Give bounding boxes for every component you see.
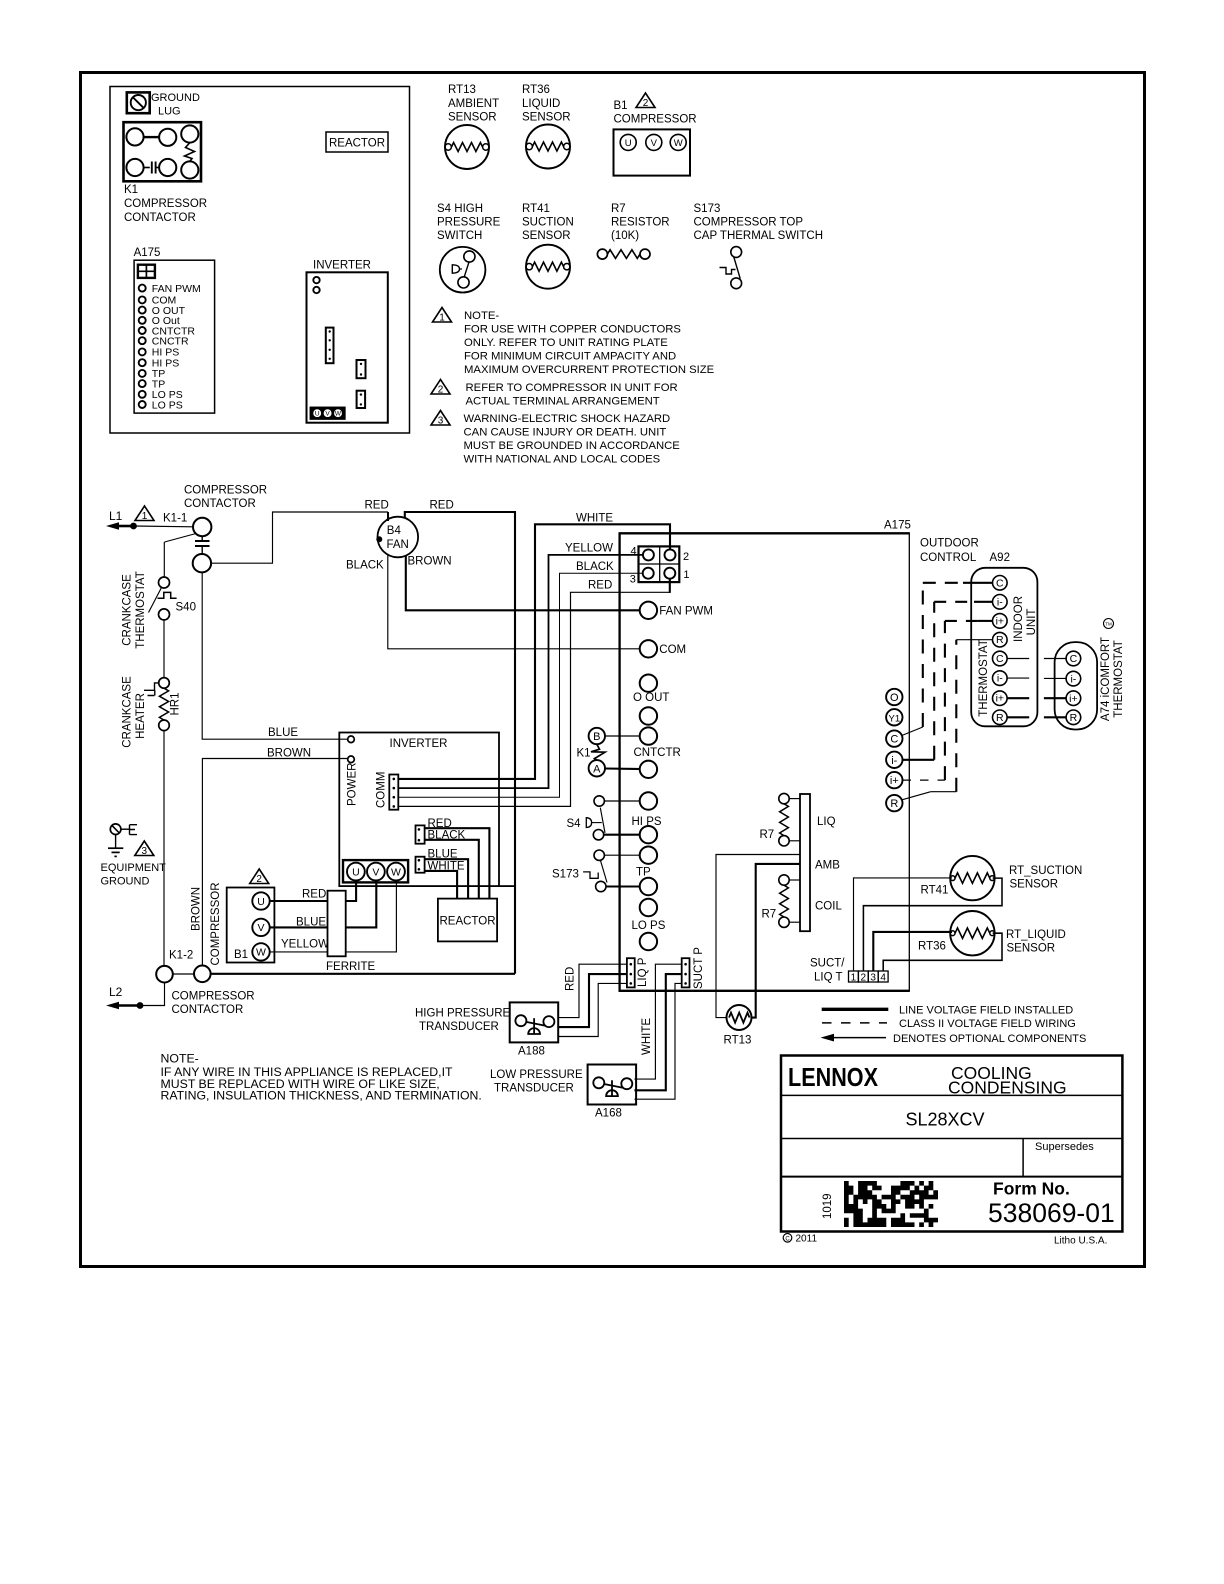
svg-text:V: V xyxy=(257,922,264,934)
svg-text:RT41: RT41 xyxy=(921,885,949,897)
svg-text:CLASS II VOLTAGE FIELD WIRING: CLASS II VOLTAGE FIELD WIRING xyxy=(899,1018,1076,1030)
svg-text:A175: A175 xyxy=(884,520,911,532)
svg-text:C: C xyxy=(785,1237,790,1243)
svg-text:BLACK: BLACK xyxy=(346,560,384,572)
thermal switch S173 legend xyxy=(694,203,824,289)
svg-text:S40: S40 xyxy=(176,602,196,614)
svg-text:REACTOR: REACTOR xyxy=(329,138,385,150)
svg-text:SENSOR: SENSOR xyxy=(522,112,571,124)
ferrite xyxy=(326,891,376,973)
svg-text:RT36: RT36 xyxy=(522,84,550,96)
wire blue B1-V to inverter V xyxy=(270,881,376,928)
svg-text:CAP THERMAL SWITCH: CAP THERMAL SWITCH xyxy=(694,230,824,242)
contactor K1-2 xyxy=(156,950,210,983)
svg-text:SENSOR: SENSOR xyxy=(1007,943,1056,955)
svg-text:S4: S4 xyxy=(567,818,582,830)
label equipment ground xyxy=(101,862,167,888)
wire hp transducer to liq p 3 xyxy=(558,983,627,1036)
svg-text:WHITE: WHITE xyxy=(641,1018,653,1055)
wire S4 to HI PS top xyxy=(604,800,639,802)
svg-text:LIQ P: LIQ P xyxy=(637,957,649,987)
svg-text:i+: i+ xyxy=(1069,693,1077,705)
svg-text:BROWN: BROWN xyxy=(191,887,203,931)
node L2 xyxy=(106,985,143,1009)
svg-text:Litho U.S.A.: Litho U.S.A. xyxy=(1054,1236,1107,1247)
connector LIQ P xyxy=(627,957,649,987)
outdoor control A175 box xyxy=(619,532,910,992)
wire inverter corner to red vertical xyxy=(499,885,515,887)
svg-text:CONTACTOR: CONTACTOR xyxy=(172,1004,244,1016)
svg-text:RED: RED xyxy=(302,889,326,901)
label A74 icomfort thermostat xyxy=(1100,619,1125,722)
wire R to indoor unit xyxy=(902,640,993,800)
svg-text:R: R xyxy=(996,634,1004,646)
wire yellow comm to pin4 xyxy=(398,555,642,788)
svg-text:WARNING-ELECTRIC SHOCK HAZARD: WARNING-ELECTRIC SHOCK HAZARD xyxy=(464,413,671,425)
terminal strip LIQ AMB COIL xyxy=(800,794,842,931)
svg-text:DENOTES OPTIONAL COMPONENTS: DENOTES OPTIONAL COMPONENTS xyxy=(893,1033,1086,1045)
label crankcase thermostat xyxy=(122,571,148,649)
svg-text:A168: A168 xyxy=(595,1108,622,1120)
label SUCT LIQ T xyxy=(810,958,845,984)
contactor switch K1-1 xyxy=(165,518,212,573)
terminal HI PS xyxy=(632,792,662,843)
svg-text:NOTE-: NOTE- xyxy=(161,1052,199,1066)
low pressure transducer A168 xyxy=(490,1065,636,1120)
compressor B1 legend xyxy=(614,93,697,176)
legend box xyxy=(110,87,410,434)
wire C to indoor unit dashed xyxy=(902,583,993,736)
title block xyxy=(781,1056,1122,1232)
svg-text:RT13: RT13 xyxy=(448,84,476,96)
wire S173 to TP top xyxy=(604,854,639,856)
svg-text:2: 2 xyxy=(683,551,689,563)
svg-text:LENNOX: LENNOX xyxy=(788,1062,879,1092)
svg-text:OUTDOOR: OUTDOOR xyxy=(920,538,979,550)
A74 terminals C i- i+ R xyxy=(1066,651,1081,724)
power input terminals xyxy=(347,736,359,806)
svg-text:RT_SUCTION: RT_SUCTION xyxy=(1009,865,1082,877)
svg-text:V: V xyxy=(372,866,379,878)
svg-text:COMPRESSOR: COMPRESSOR xyxy=(614,114,697,126)
svg-text:SENSOR: SENSOR xyxy=(522,230,571,242)
svg-text:i+: i+ xyxy=(996,693,1004,705)
svg-text:FOR MINIMUM CIRCUIT AMPACITY A: FOR MINIMUM CIRCUIT AMPACITY AND xyxy=(464,351,676,363)
svg-text:LO PS: LO PS xyxy=(152,399,183,411)
svg-text:POWER: POWER xyxy=(347,763,359,806)
warning triangle 2 at B1 xyxy=(250,869,269,885)
node L1 xyxy=(106,509,137,530)
note 3 text xyxy=(464,413,681,466)
wire pin1 to RT41 xyxy=(854,878,953,971)
svg-text:L2: L2 xyxy=(109,985,123,999)
indoor unit A92 box xyxy=(971,568,1037,727)
svg-text:FAN PWM: FAN PWM xyxy=(152,283,201,295)
thermistor RT41 suction xyxy=(921,856,995,900)
svg-text:i-: i- xyxy=(997,673,1003,685)
svg-text:YELLOW: YELLOW xyxy=(281,939,329,951)
wire black comm to pin3 xyxy=(398,573,642,797)
svg-text:CRANKCASE: CRANKCASE xyxy=(122,676,134,748)
resistor R7 liq xyxy=(760,793,790,846)
high pressure transducer A188 xyxy=(415,1002,558,1057)
svg-text:A175: A175 xyxy=(134,247,161,259)
note 2 text xyxy=(466,382,678,408)
page border frame xyxy=(81,73,1145,1267)
svg-text:RT_LIQUID: RT_LIQUID xyxy=(1006,929,1066,941)
svg-text:LO PS: LO PS xyxy=(632,920,666,932)
svg-text:SENSOR: SENSOR xyxy=(1010,879,1059,891)
legend class II xyxy=(822,1018,1076,1030)
svg-text:WHITE: WHITE xyxy=(576,513,613,525)
svg-text:B: B xyxy=(593,731,600,743)
wire pin2 to RT41 return xyxy=(863,878,1002,971)
warning triangle 1 at L1 xyxy=(135,506,154,522)
svg-text:(10K): (10K) xyxy=(611,230,639,242)
svg-text:LOW PRESSURE: LOW PRESSURE xyxy=(490,1069,583,1081)
svg-text:Form No.: Form No. xyxy=(993,1179,1070,1199)
svg-text:HR1: HR1 xyxy=(170,692,182,715)
svg-text:1: 1 xyxy=(142,511,148,522)
svg-text:MAXIMUM OVERCURRENT PROTECTION: MAXIMUM OVERCURRENT PROTECTION SIZE xyxy=(464,364,715,376)
svg-text:GROUND: GROUND xyxy=(101,876,150,888)
svg-text:FOR USE WITH COPPER CONDUCTORS: FOR USE WITH COPPER CONDUCTORS xyxy=(464,324,681,336)
label RT_SUCTION SENSOR xyxy=(1009,865,1082,891)
svg-text:CONTROL: CONTROL xyxy=(920,552,977,564)
terminal O xyxy=(886,689,902,705)
svg-text:RATING, INSULATION THICKNESS,: RATING, INSULATION THICKNESS, AND TERMIN… xyxy=(161,1089,482,1103)
wire K1-B to CNTCTR xyxy=(605,735,640,737)
svg-text:FAN: FAN xyxy=(387,539,409,551)
svg-text:ACTUAL TERMINAL ARRANGEMENT: ACTUAL TERMINAL ARRANGEMENT xyxy=(466,396,660,408)
wire red drop to fan xyxy=(387,512,389,521)
svg-text:U: U xyxy=(352,866,360,878)
svg-text:4: 4 xyxy=(631,546,637,558)
svg-text:K1-1: K1-1 xyxy=(163,513,187,525)
wire i- to indoor unit dashed xyxy=(903,602,993,760)
svg-text:HIGH PRESSURE: HIGH PRESSURE xyxy=(415,1007,511,1019)
inverter legend box xyxy=(307,260,388,423)
svg-text:REFER TO COMPRESSOR IN UNIT FO: REFER TO COMPRESSOR IN UNIT FOR xyxy=(466,382,678,394)
reactor plug blue white xyxy=(416,849,465,873)
svg-text:THERMOSTAT: THERMOSTAT xyxy=(978,639,990,717)
wire L1 to K1-1 xyxy=(134,525,194,528)
svg-text:3: 3 xyxy=(142,846,148,857)
svg-text:RT41: RT41 xyxy=(522,203,550,215)
svg-text:TP: TP xyxy=(636,867,651,879)
svg-text:REACTOR: REACTOR xyxy=(439,916,495,928)
wire black fan to COM xyxy=(388,554,640,649)
wire K1-1 to S40 xyxy=(163,542,165,577)
svg-text:GROUND: GROUND xyxy=(151,92,200,104)
svg-text:RT36: RT36 xyxy=(918,941,946,953)
fan motor B4 xyxy=(376,517,418,558)
pressure switch S4 xyxy=(567,796,606,840)
svg-text:B4: B4 xyxy=(387,525,402,537)
svg-text:2011: 2011 xyxy=(796,1234,818,1245)
svg-text:INDOOR: INDOOR xyxy=(1013,596,1025,642)
svg-text:R7: R7 xyxy=(760,829,775,841)
note 1 text xyxy=(464,310,715,376)
svg-text:COIL: COIL xyxy=(815,901,842,913)
svg-text:2: 2 xyxy=(438,385,444,396)
svg-text:LINE VOLTAGE FIELD INSTALLED: LINE VOLTAGE FIELD INSTALLED xyxy=(899,1005,1073,1017)
svg-text:COMPRESSOR: COMPRESSOR xyxy=(172,991,255,1003)
legend line voltage xyxy=(822,1005,1074,1017)
wire white reactor xyxy=(425,871,458,899)
svg-text:U: U xyxy=(625,138,632,149)
svg-text:R7: R7 xyxy=(762,909,777,921)
svg-text:UNIT: UNIT xyxy=(1026,609,1038,636)
svg-text:C: C xyxy=(996,653,1004,665)
svg-text:BROWN: BROWN xyxy=(408,556,452,568)
svg-text:CAN CAUSE INJURY OR DEATH. UNI: CAN CAUSE INJURY OR DEATH. UNIT xyxy=(464,427,667,439)
svg-text:RESISTOR: RESISTOR xyxy=(611,217,670,229)
wire HR1 to K1-2 xyxy=(163,731,165,966)
wires A92 to A74 xyxy=(1007,659,1066,718)
svg-text:C: C xyxy=(890,734,898,746)
svg-text:CONDENSING: CONDENSING xyxy=(948,1078,1067,1098)
wire hp transducer to liq p 1 xyxy=(558,964,627,1017)
svg-text:K1: K1 xyxy=(577,748,591,760)
svg-text:CNCTR: CNCTR xyxy=(152,336,189,348)
svg-text:U: U xyxy=(315,411,320,418)
bottom note text xyxy=(161,1052,482,1103)
resistor R7 legend 10K xyxy=(597,203,669,259)
warning triangle 3 equipment ground xyxy=(135,841,154,857)
svg-text:i-: i- xyxy=(997,596,1003,608)
inverter UVW terminals xyxy=(343,860,408,882)
svg-text:FERRITE: FERRITE xyxy=(326,961,376,973)
svg-text:HEATER: HEATER xyxy=(135,693,147,739)
thermostat S40 crankcase xyxy=(149,577,196,620)
wire amb thin to RT13 xyxy=(716,855,800,1018)
svg-text:CNTCTR: CNTCTR xyxy=(634,747,681,759)
wire brown fan to FAN PWM xyxy=(406,555,640,610)
wire white comm to pin2 xyxy=(398,524,670,779)
wire brown inverter power to K1-2 xyxy=(202,759,347,966)
svg-text:i+: i+ xyxy=(890,775,899,787)
svg-text:V: V xyxy=(651,138,658,149)
svg-text:EQUIPMENT: EQUIPMENT xyxy=(101,862,167,874)
legend optional components arrow xyxy=(821,1033,1087,1045)
wire blue reactor xyxy=(425,859,469,898)
wire lp transducer to suct p 2 xyxy=(634,974,681,1090)
svg-text:R7: R7 xyxy=(611,203,626,215)
wire black reactor xyxy=(425,840,479,899)
wire S40 to HR1 xyxy=(163,620,165,678)
svg-text:W: W xyxy=(391,866,401,878)
svg-text:B1: B1 xyxy=(614,100,628,112)
svg-text:YELLOW: YELLOW xyxy=(565,543,613,555)
svg-text:A: A xyxy=(593,763,601,775)
contactor K1 legend symbol xyxy=(124,122,208,224)
wire i+ to indoor unit dashed xyxy=(903,621,993,780)
svg-text:R: R xyxy=(996,712,1004,724)
wire R7 to LIQ xyxy=(789,798,800,800)
svg-text:2: 2 xyxy=(256,874,262,885)
svg-text:2: 2 xyxy=(861,972,867,983)
svg-text:INVERTER: INVERTER xyxy=(313,260,371,272)
note triangle 1 xyxy=(433,308,452,324)
svg-text:COM: COM xyxy=(659,644,686,656)
relay coil K1 xyxy=(577,728,606,777)
svg-text:3: 3 xyxy=(438,416,444,427)
wire K1-2 to fan red junction xyxy=(211,973,515,975)
svg-text:AMB: AMB xyxy=(815,860,840,872)
svg-text:S173: S173 xyxy=(552,869,579,881)
wire pin4 to RT36 return xyxy=(883,933,1002,971)
svg-text:W: W xyxy=(335,411,342,418)
wire pin3 to RT36 xyxy=(873,932,952,971)
svg-text:FAN PWM: FAN PWM xyxy=(659,606,713,618)
reactor legend box xyxy=(326,132,388,152)
svg-text:NOTE-: NOTE- xyxy=(464,310,499,322)
label crankcase heater xyxy=(122,676,148,748)
wire hp transducer to liq p 2 xyxy=(558,974,627,1027)
svg-text:4: 4 xyxy=(880,972,886,983)
svg-text:1: 1 xyxy=(439,313,445,324)
A92 terminals C i- i+ R thermostat C i- i+ R xyxy=(993,576,1008,725)
label outdoor control xyxy=(920,538,979,565)
svg-text:SENSOR: SENSOR xyxy=(448,112,497,124)
label indoor unit xyxy=(1013,596,1038,642)
connector SUCT P xyxy=(682,947,705,989)
thermal switch S173 xyxy=(552,850,607,892)
svg-text:i+: i+ xyxy=(996,615,1004,627)
ground lug symbol xyxy=(127,92,200,118)
svg-text:SUCTION: SUCTION xyxy=(522,217,574,229)
svg-text:CONTACTOR: CONTACTOR xyxy=(124,212,196,224)
wire amb thick to RT13 xyxy=(751,864,800,1018)
svg-text:TRANSDUCER: TRANSDUCER xyxy=(494,1083,574,1095)
wire blue K1-1 to inverter power xyxy=(202,572,348,739)
svg-text:COMPRESSOR TOP: COMPRESSOR TOP xyxy=(694,217,804,229)
svg-text:538069-01: 538069-01 xyxy=(988,1198,1115,1228)
wire L2 to K1-2 xyxy=(140,983,165,1006)
terminal i+ xyxy=(886,772,902,788)
connector 4-pin fan plug xyxy=(630,546,690,586)
wire lp transducer to suct p 3 xyxy=(634,983,681,1099)
svg-text:COMPRESSOR: COMPRESSOR xyxy=(210,882,222,965)
terminal R xyxy=(886,795,902,811)
wire R7b to COIL bottom xyxy=(789,921,800,923)
note triangle 3 xyxy=(431,411,450,427)
svg-text:K1-2: K1-2 xyxy=(169,950,193,962)
svg-text:RED: RED xyxy=(588,580,612,592)
terminal i- xyxy=(886,752,902,768)
terminal Y1 xyxy=(886,709,902,725)
equipment ground symbol xyxy=(108,824,137,857)
svg-text:i-: i- xyxy=(891,755,897,767)
svg-text:MUST BE GROUNDED IN ACCORDANCE: MUST BE GROUNDED IN ACCORDANCE xyxy=(464,440,681,452)
svg-text:3: 3 xyxy=(870,972,876,983)
svg-text:AMBIENT: AMBIENT xyxy=(448,98,499,110)
svg-text:LUG: LUG xyxy=(158,106,181,118)
svg-text:K1: K1 xyxy=(124,184,138,196)
svg-text:1: 1 xyxy=(851,972,857,983)
thermistor RT13 legend ambient sensor xyxy=(445,84,499,169)
svg-text:RED: RED xyxy=(430,500,454,512)
compressor contactor label bottom xyxy=(172,991,255,1017)
svg-text:TRANSDUCER: TRANSDUCER xyxy=(419,1021,499,1033)
wire R7 to AMB xyxy=(789,840,800,842)
svg-text:2: 2 xyxy=(643,98,649,109)
resistor R7 coil xyxy=(762,875,790,928)
svg-text:CRANKCASE: CRANKCASE xyxy=(122,574,134,646)
svg-text:A92: A92 xyxy=(990,552,1010,564)
svg-text:C: C xyxy=(996,577,1004,589)
terminal FAN PWM xyxy=(640,602,713,619)
svg-text:THERMOSTAT: THERMOSTAT xyxy=(135,571,147,649)
wire K1-A to CNTCTR xyxy=(605,767,640,770)
svg-text:O: O xyxy=(890,692,899,704)
wire red K1-1 to fan xyxy=(211,512,388,563)
compressor B1 xyxy=(210,882,274,965)
svg-text:3: 3 xyxy=(630,574,636,586)
svg-text:1019: 1019 xyxy=(822,1193,834,1219)
terminal TP xyxy=(636,847,657,896)
svg-text:RT13: RT13 xyxy=(724,1035,752,1047)
label RT_LIQUID SENSOR xyxy=(1006,929,1066,955)
wire lp transducer to suct p 1 xyxy=(634,964,681,1079)
svg-text:CONTACTOR: CONTACTOR xyxy=(184,498,256,510)
svg-text:W: W xyxy=(674,138,683,149)
svg-text:RED: RED xyxy=(365,500,389,512)
svg-text:C: C xyxy=(1070,653,1078,665)
svg-text:ONLY. REFER TO UNIT RATING PLA: ONLY. REFER TO UNIT RATING PLATE xyxy=(464,337,668,349)
svg-text:S4 HIGH: S4 HIGH xyxy=(437,203,483,215)
pressure switch S4 legend xyxy=(437,203,501,293)
reactor box xyxy=(438,899,497,942)
svg-text:W: W xyxy=(256,947,266,959)
heater HR1 crankcase xyxy=(144,678,182,731)
inverter box xyxy=(339,733,499,887)
svg-text:SUCT/: SUCT/ xyxy=(810,958,845,970)
svg-text:BLACK: BLACK xyxy=(576,561,614,573)
svg-text:COMPRESSOR: COMPRESSOR xyxy=(124,198,207,210)
wire R7b to COIL xyxy=(789,879,800,881)
wire red reactor xyxy=(425,828,490,898)
svg-text:SL28XCV: SL28XCV xyxy=(905,1110,984,1130)
svg-text:LIQ T: LIQ T xyxy=(814,972,843,984)
svg-text:BROWN: BROWN xyxy=(267,747,311,759)
copyright 2011 xyxy=(783,1234,817,1245)
wire red comm to pin1 xyxy=(398,592,670,806)
svg-text:R: R xyxy=(890,798,898,810)
terminal LO PS xyxy=(632,899,666,950)
svg-text:i-: i- xyxy=(1070,673,1076,685)
svg-text:S173: S173 xyxy=(694,203,721,215)
svg-text:V: V xyxy=(325,411,330,418)
datamatrix barcode xyxy=(844,1181,938,1227)
svg-text:COMM: COMM xyxy=(376,772,388,808)
terminal C xyxy=(886,730,902,746)
svg-text:TM: TM xyxy=(1105,622,1112,627)
thermistor RT41 legend suction sensor xyxy=(522,203,574,289)
thermistor RT36 legend liquid sensor xyxy=(522,84,571,169)
svg-text:A188: A188 xyxy=(518,1046,545,1058)
svg-text:O OUT: O OUT xyxy=(633,692,669,704)
connector A175 legend xyxy=(134,247,215,413)
svg-text:THERMOSTAT: THERMOSTAT xyxy=(1113,640,1125,718)
svg-text:1: 1 xyxy=(683,569,689,581)
wire pin1 drop xyxy=(669,579,671,593)
thermistor RT36 liquid xyxy=(918,911,995,955)
svg-text:A74 iCOMFORT: A74 iCOMFORT xyxy=(1100,637,1112,721)
wire S173 to TP bottom xyxy=(607,885,640,887)
terminal COM xyxy=(640,640,686,657)
